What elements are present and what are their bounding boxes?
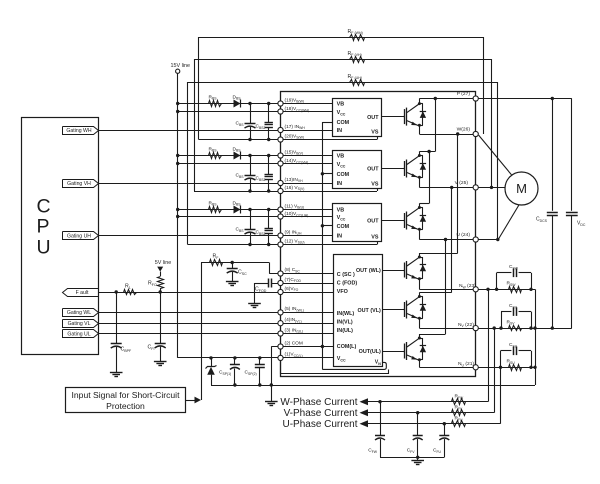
svg-text:OUT: OUT bbox=[367, 115, 379, 121]
resistor R_F bbox=[201, 262, 269, 264]
transistor Q5 (VL IGBT) bbox=[404, 302, 406, 317]
capacitor C_SPF bbox=[116, 292, 118, 343]
svg-text:IN(UL): IN(UL) bbox=[337, 328, 353, 334]
diode D_BS (row 3) bbox=[234, 206, 241, 214]
wire COM stub block 3 bbox=[322, 225, 332, 227]
resistor R_BS (row 1) bbox=[209, 101, 222, 107]
wire pin1 V_N loop bbox=[281, 361, 389, 374]
motor M bbox=[505, 172, 538, 205]
wire F ault to V_FO pin6 bbox=[99, 292, 334, 294]
transistor Q1 (WH IGBT) bbox=[404, 109, 406, 124]
wire Gating VH to IN(VH) pin13 bbox=[99, 183, 333, 185]
resistor R_FO bbox=[160, 272, 162, 276]
svg-text:Gating UH: Gating UH bbox=[67, 233, 91, 239]
svg-text:Gating WH: Gating WH bbox=[66, 128, 91, 134]
transistor Q4 (WL IGBT) bbox=[404, 263, 406, 278]
wire V_N tab bbox=[322, 362, 386, 369]
wire pin7 C_FOD bbox=[272, 283, 334, 285]
wire: U-phase feedback rail bbox=[188, 82, 498, 84]
svg-text:VFO: VFO bbox=[337, 289, 348, 295]
svg-text:VS: VS bbox=[371, 130, 379, 136]
svg-text:VS: VS bbox=[371, 182, 379, 188]
svg-text:COM: COM bbox=[337, 172, 350, 178]
wire VCC row 2 bbox=[178, 163, 333, 165]
wire Gating UL to IN(UL) pin3 bbox=[99, 333, 334, 335]
wire stub to ground (COM) bbox=[271, 385, 273, 402]
wire: W feedback right drop to W(26) bbox=[483, 37, 485, 134]
svg-text:IN: IN bbox=[337, 181, 342, 187]
port Gating UH bbox=[63, 232, 99, 240]
svg-text:Protection: Protection bbox=[106, 401, 145, 411]
resistor R_BS (row 2) bbox=[209, 153, 222, 159]
wire W-Phase Current line bbox=[366, 401, 488, 403]
svg-text:M: M bbox=[516, 181, 527, 196]
svg-text:Gating VL: Gating VL bbox=[68, 321, 91, 327]
svg-text:COM(L): COM(L) bbox=[337, 344, 357, 350]
wire V current sense drop bbox=[494, 328, 496, 413]
wire V(25) to motor bbox=[478, 187, 505, 189]
svg-text:V-Phase Current: V-Phase Current bbox=[284, 408, 358, 419]
svg-text:VS: VS bbox=[371, 235, 379, 241]
wire Q4 collector bbox=[419, 253, 421, 257]
svg-text:IN(WL): IN(WL) bbox=[337, 311, 355, 317]
CPU block bbox=[22, 118, 99, 355]
ground (C_SPF) bbox=[110, 372, 123, 374]
svg-text:VB: VB bbox=[337, 102, 345, 108]
svg-text:IN(VL): IN(VL) bbox=[337, 319, 353, 325]
svg-text:U-Phase Current: U-Phase Current bbox=[282, 419, 357, 430]
wire U-Phase Current line bbox=[366, 423, 501, 425]
wire Q2 emitter to V row bbox=[419, 178, 421, 188]
wire V_S row 3 bbox=[188, 244, 377, 246]
wire V_CC(L) 15V rail bbox=[178, 357, 334, 359]
wire Gating UH to IN(UH) pin9 bbox=[99, 235, 333, 237]
svg-text:OUT (VL): OUT (VL) bbox=[357, 308, 381, 314]
ground (C_FI) bbox=[154, 361, 167, 363]
svg-text:VB: VB bbox=[337, 208, 345, 214]
svg-text:OUT(UL): OUT(UL) bbox=[359, 349, 381, 355]
wire: V feedback right drop to V(25) bbox=[491, 59, 493, 187]
port F ault bbox=[63, 289, 99, 297]
wire OUT(VL) to Q5 gate bbox=[383, 309, 404, 311]
wire Q5 collector bbox=[419, 293, 421, 297]
svg-text:COM: COM bbox=[337, 120, 350, 126]
pin circles right N bbox=[473, 287, 478, 292]
wire to pin8 C_SC bbox=[269, 263, 271, 274]
svg-text:IN: IN bbox=[337, 234, 342, 240]
port Gating WL bbox=[63, 309, 99, 317]
transistor Q2 (VH IGBT) bbox=[404, 161, 406, 176]
svg-text:NU (21): NU (21) bbox=[458, 361, 474, 367]
wire Q6 collector bbox=[419, 334, 421, 338]
svg-text:P (27): P (27) bbox=[457, 91, 471, 97]
svg-text:5V line: 5V line bbox=[155, 260, 171, 266]
svg-text:W-Phase Current: W-Phase Current bbox=[280, 397, 357, 408]
capacitor C_BS (row 1) bbox=[250, 104, 252, 124]
wire Q5 emitter to N_V row bbox=[419, 319, 421, 329]
wire COM common vertical bbox=[322, 122, 324, 369]
RC shunt R_SU C_SU on N_U(21) bbox=[478, 367, 535, 369]
ground (COM) bbox=[265, 401, 278, 403]
svg-text:(2) COM: (2) COM bbox=[285, 340, 303, 346]
wire pin2 COM row bbox=[271, 346, 334, 348]
wire P chain to Q2 bbox=[435, 99, 437, 152]
wire Gating WH to IN(WH) pin17 bbox=[99, 130, 333, 132]
wire COM stub block 1 bbox=[322, 122, 332, 124]
wire V-Phase Current line bbox=[366, 412, 494, 414]
wire Gating WL to IN(WL) pin5 bbox=[99, 312, 334, 314]
wire U current sense drop bbox=[500, 367, 502, 423]
op-amp U3 high-side driver block bbox=[333, 204, 382, 242]
svg-text:V (25): V (25) bbox=[455, 180, 469, 186]
svg-text:U: U bbox=[37, 236, 51, 258]
pin circles left column bbox=[278, 101, 283, 106]
capacitor C_BS2 (row 2) bbox=[268, 156, 270, 175]
wire OUT U2 to Q2 gate bbox=[382, 168, 404, 170]
RC shunt R_SW C_SW on N_W(23) bbox=[478, 289, 535, 291]
wire W(26) to motor bbox=[479, 135, 512, 175]
diode D_BS (row 1) bbox=[234, 100, 241, 108]
wire: U feedback left drop to pin12 V_S(U) bbox=[187, 82, 189, 245]
svg-text:IN: IN bbox=[337, 128, 342, 134]
wire arrow input signal bbox=[185, 400, 194, 402]
wire VCC row 1 bbox=[178, 111, 333, 113]
svg-text:COM: COM bbox=[337, 224, 350, 230]
wire bootstrap supply row 3 bbox=[178, 209, 333, 211]
capacitor C_SP(1) bbox=[234, 358, 236, 365]
wire V_S row 1 bbox=[199, 139, 377, 141]
capacitor C_SP(2) bbox=[259, 358, 261, 365]
wire Gating VL to IN(VL) pin4 bbox=[99, 323, 334, 325]
wire Q1 collector to P rail bbox=[419, 99, 421, 104]
wire VCC row 3 bbox=[178, 216, 333, 218]
transistor Q6 (UL IGBT) bbox=[404, 344, 406, 359]
svg-text:OUT: OUT bbox=[367, 167, 379, 173]
svg-text:Gating VH: Gating VH bbox=[67, 181, 91, 187]
wire: 15V vertical bus bbox=[177, 73, 179, 358]
pin circles right P W V U bbox=[473, 96, 478, 101]
resistor R_BS (row 3) bbox=[209, 207, 222, 213]
port Gating VH bbox=[63, 180, 99, 188]
capacitor V_DC (DC bus) bbox=[571, 99, 573, 211]
wire OUT U3 to Q3 gate bbox=[382, 220, 404, 222]
svg-text:Gating WL: Gating WL bbox=[67, 310, 91, 316]
port Gating UL bbox=[63, 330, 99, 338]
resistor R_1 bbox=[124, 290, 137, 295]
svg-text:15V line: 15V line bbox=[171, 63, 190, 69]
capacitor C_BS2 (row 1) bbox=[268, 104, 270, 123]
wire U column to Q6 bbox=[445, 240, 447, 335]
capacitor C_DCS bbox=[552, 99, 554, 211]
op-amp U2 high-side driver block bbox=[333, 151, 382, 189]
wire stub to ground (filter) bbox=[417, 457, 419, 460]
wire Q1 emitter to W row bbox=[419, 126, 421, 134]
resistor R_FW bbox=[452, 399, 466, 405]
wire Q3 collector bbox=[419, 204, 421, 208]
capacitor C_BS (row 3) bbox=[250, 210, 252, 230]
capacitor C_FV bbox=[417, 413, 419, 435]
ground (C_SC) bbox=[226, 281, 239, 283]
wire W current sense drop bbox=[488, 289, 490, 401]
capacitor C_FW bbox=[380, 402, 382, 435]
svg-text:NV (22): NV (22) bbox=[458, 322, 474, 328]
svg-text:W(26): W(26) bbox=[457, 127, 471, 133]
capacitor C_FOD bbox=[268, 279, 270, 288]
wire COM stub block 2 bbox=[322, 173, 332, 175]
svg-text:NW (23): NW (23) bbox=[459, 283, 476, 289]
diode D_BS (row 2) bbox=[234, 152, 241, 160]
wire: V feedback left drop to pin16 V_S(V) bbox=[194, 59, 196, 191]
svg-text:OUT (WL): OUT (WL) bbox=[356, 268, 381, 274]
wire bootstrap supply row 2 bbox=[178, 155, 333, 157]
svg-text:OUT: OUT bbox=[367, 219, 379, 225]
ground (filter caps) bbox=[411, 460, 424, 462]
wire OUT U1 to Q1 gate bbox=[382, 116, 404, 118]
capacitor C_BS2 (row 3) bbox=[268, 210, 270, 229]
RC shunt R_SV C_SV on N_V(22) bbox=[478, 328, 572, 330]
resistor R_F(VH) bbox=[350, 57, 365, 63]
svg-text:C (SC ): C (SC ) bbox=[337, 272, 355, 278]
wire V_S row 2 bbox=[194, 191, 377, 193]
wire N bus vertical bbox=[535, 289, 537, 385]
wire: W-phase feedback rail top bbox=[199, 37, 484, 39]
svg-text:P: P bbox=[37, 216, 50, 238]
wire P chain to Q3 bbox=[429, 152, 431, 204]
wire: V-phase feedback rail bbox=[194, 59, 492, 61]
resistor R_F(WH) bbox=[350, 35, 365, 41]
wire C_FOD to ground bbox=[254, 283, 256, 303]
svg-text:F ault: F ault bbox=[76, 290, 89, 296]
resistor R_F(UH) bbox=[350, 80, 365, 86]
wire filter cap rail bbox=[380, 457, 444, 459]
wire V column to Q5 bbox=[451, 187, 453, 292]
resistor R_FU bbox=[452, 421, 466, 427]
wire W column to Q4 bbox=[457, 134, 459, 253]
wire U(24) to motor bbox=[478, 239, 498, 241]
capacitor C_SC bbox=[232, 263, 234, 269]
svg-text:VB: VB bbox=[337, 154, 345, 160]
wire Q2 collector bbox=[419, 152, 421, 156]
zener diode D_Z bbox=[211, 358, 213, 366]
svg-text:U (24): U (24) bbox=[456, 232, 470, 238]
wire R_F branch down (SC input) bbox=[201, 263, 203, 401]
port Gating WH bbox=[63, 127, 99, 135]
wire Q3 emitter to U row bbox=[419, 230, 421, 240]
svg-text:Input Signal for Short-Circuit: Input Signal for Short-Circuit bbox=[72, 390, 181, 400]
wire Q6 emitter to N_U row bbox=[419, 360, 421, 367]
ground rail (low side) bbox=[211, 385, 535, 387]
capacitor C_BS (row 2) bbox=[250, 156, 252, 176]
wire OUT(UL) to Q6 gate bbox=[383, 351, 404, 353]
wire COM to ground rail bbox=[271, 347, 273, 386]
svg-text:C: C bbox=[37, 196, 51, 218]
capacitor C_FU bbox=[444, 424, 446, 435]
transistor Q3 (UH IGBT) bbox=[404, 213, 406, 228]
wire: U feedback right drop to U(24) bbox=[497, 82, 499, 240]
ground (C_FOD) bbox=[248, 303, 261, 305]
capacitor C_FI bbox=[160, 292, 162, 343]
svg-text:Gating UL: Gating UL bbox=[67, 331, 90, 337]
IPM module outline bbox=[281, 92, 476, 377]
Input Signal for Short-Circuit Protection box bbox=[66, 388, 186, 413]
wire OUT(WL) to Q4 gate bbox=[383, 270, 404, 272]
op-amp U1 high-side driver block bbox=[333, 99, 382, 137]
wire: W feedback left drop to pin20 V_S(W) bbox=[198, 37, 200, 140]
port Gating VL bbox=[63, 320, 99, 328]
svg-text:C (FOD): C (FOD) bbox=[337, 281, 358, 287]
resistor R_FV bbox=[452, 410, 466, 416]
op-amp U4 low-side driver block bbox=[334, 255, 383, 367]
wire bootstrap supply row 1 bbox=[178, 103, 333, 105]
wire Q4 emitter to N_W row bbox=[419, 279, 421, 289]
wire P to DC bus bbox=[478, 98, 572, 100]
